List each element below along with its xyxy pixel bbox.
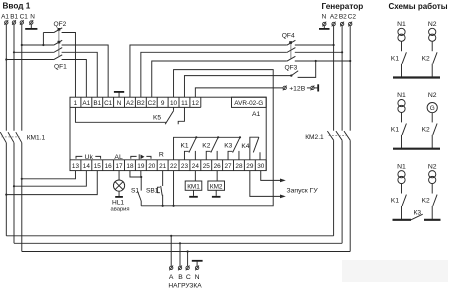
source N2 (scheme 1) — [429, 28, 436, 41]
svg-text:1: 1 — [74, 100, 78, 107]
svg-text:K1: K1 — [391, 55, 399, 62]
label R (terminal 21) — [159, 152, 164, 159]
bus phase A (bottom) — [6, 235, 333, 237]
svg-text:N2: N2 — [428, 92, 437, 99]
svg-text:N: N — [30, 14, 35, 21]
node QF4 pole3 to generator C2 — [349, 60, 351, 62]
node QF4 pole2 to generator B2 — [341, 51, 343, 53]
breaker QF3 (generator sense to terminal 11) — [184, 60, 316, 97]
svg-text:10: 10 — [170, 100, 178, 107]
reference designator A1 — [252, 111, 261, 118]
wire QF2 tap from phase C line — [42, 33, 44, 47]
svg-text:17: 17 — [115, 163, 123, 170]
svg-text:12: 12 — [192, 100, 200, 107]
svg-text:K5: K5 — [153, 115, 161, 122]
svg-text:QF3: QF3 — [285, 65, 298, 72]
svg-text:Запуск ГУ: Запуск ГУ — [287, 187, 319, 194]
load neutral PEN bar — [192, 261, 203, 271]
terminal N (generator) — [322, 22, 326, 27]
wire generator phase C2 vertical — [349, 26, 351, 131]
svg-text:30: 30 — [257, 163, 265, 170]
svg-text:K2: K2 — [422, 127, 430, 134]
node QF1 tap phase C — [21, 44, 23, 46]
controller unit A1 AVR-02-G outline — [70, 97, 266, 170]
svg-text:В1: В1 — [10, 14, 18, 21]
load tap A — [169, 235, 173, 271]
relay contact K5 (terminal 1 to 10) — [75, 107, 173, 124]
source N2 (scheme 2) — [427, 103, 437, 113]
relay contact K3 (terminals 27-28) — [224, 136, 241, 160]
svg-text:22: 22 — [170, 163, 178, 170]
contact K2 (scheme 2) — [422, 113, 437, 149]
svg-text:27: 27 — [224, 163, 232, 170]
svg-text:QF1: QF1 — [54, 64, 67, 71]
contact K1 (scheme 1) — [391, 41, 406, 77]
wire generator phase A2 vertical — [333, 26, 335, 131]
node QF1 tap phase A — [5, 58, 7, 60]
relay contact K4 (terminals 29-30) — [241, 137, 260, 160]
breaker QF1 (3-pole) — [6, 28, 108, 97]
terminal strip bottom row (13..30) — [70, 160, 266, 171]
node QF1 tap phase B — [13, 51, 15, 53]
source N1 (scheme 3) — [398, 171, 405, 184]
bus bar (scheme 1) — [393, 76, 440, 78]
svg-text:K1: K1 — [181, 142, 189, 149]
load labels A B C N — [169, 274, 200, 281]
contact K3 in bus (scheme 3) — [393, 210, 441, 220]
svg-text:С2: С2 — [148, 100, 157, 107]
contact K1 (scheme 2) — [391, 113, 406, 149]
wire Uk sense terminal 13 to phase C — [21, 171, 76, 180]
wire generator B2 lower vertical — [341, 140, 343, 243]
terminal B2 (generator) — [340, 22, 344, 27]
svg-text:HL1: HL1 — [112, 200, 124, 207]
terminal strip top row (1..12) — [70, 97, 201, 107]
label box AVR-02-G — [232, 97, 267, 107]
relay contact K2 (terminals 25-26) — [202, 136, 219, 160]
svg-text:24: 24 — [192, 163, 200, 170]
svg-text:G: G — [430, 105, 435, 112]
ground PEN bar (generator N) — [319, 26, 330, 29]
wire start output terminal 30 with arrow — [261, 171, 286, 183]
contact K1 (scheme 3) — [391, 184, 406, 220]
terminal C2 (generator) — [348, 22, 352, 27]
svg-text:21: 21 — [159, 163, 167, 170]
fixed contact hook below terminal 11 — [178, 107, 184, 124]
load tap C — [186, 250, 190, 270]
svg-text:N2: N2 — [428, 21, 437, 28]
svg-text:С1: С1 — [104, 100, 113, 107]
svg-text:НАГРУЗКА: НАГРУЗКА — [168, 283, 202, 289]
wire generator C2 lower vertical — [349, 140, 351, 251]
svg-text:SB1: SB1 — [146, 188, 159, 195]
svg-text:25: 25 — [203, 163, 211, 170]
ground PEN bar (input 1 N) — [25, 24, 37, 29]
svg-text:Uk: Uk — [85, 154, 94, 161]
svg-text:авария: авария — [111, 207, 130, 213]
svg-text:9: 9 — [161, 100, 165, 107]
svg-text:K4: K4 — [241, 143, 249, 150]
node QF4 pole1 to generator A2 — [333, 44, 335, 46]
svg-text:N2: N2 — [428, 163, 437, 170]
terminal B1 (input 1) — [12, 20, 16, 25]
contactor coil KM2 (terminal 26) — [208, 171, 225, 197]
node labels A1 B1 C1 N (input 1) — [1, 14, 35, 21]
wire phase B lower vertical — [13, 143, 15, 244]
breaker QF4 (3-pole, generator) — [130, 32, 350, 97]
title Генератор — [322, 2, 364, 11]
source N2 (scheme 3) — [429, 171, 436, 184]
svg-text:N: N — [195, 274, 200, 281]
svg-text:В2: В2 — [137, 100, 145, 107]
svg-text:А2: А2 — [330, 13, 338, 20]
wire +12V battery feed (terminal 12) — [195, 84, 318, 97]
relay contact K1 (terminals 23-24) — [181, 136, 198, 160]
wire phase C lower vertical — [21, 143, 23, 252]
svg-text:КМ2.1: КМ2.1 — [305, 134, 324, 141]
svg-text:КМ1: КМ1 — [187, 183, 200, 190]
wire common return (terminal 10 loop around block) — [141, 70, 273, 206]
svg-text:K1: K1 — [391, 198, 399, 205]
svg-text:QF2: QF2 — [54, 21, 67, 28]
svg-text:КМ2: КМ2 — [210, 183, 223, 190]
svg-text:K1: K1 — [391, 127, 399, 134]
svg-text:N1: N1 — [397, 92, 406, 99]
svg-text:29: 29 — [246, 163, 254, 170]
svg-text:R: R — [159, 152, 164, 159]
lamp HL1 авария (terminal 17) — [111, 171, 130, 213]
terminal A1 (input 1) — [4, 20, 8, 25]
wire common bar for relay contacts K1-K3 (from terminal 22) — [174, 137, 240, 160]
svg-text:N: N — [322, 13, 327, 20]
svg-text:С1: С1 — [20, 14, 29, 21]
wire phase A lower vertical — [5, 143, 7, 236]
terminal C1 (input 1) — [20, 20, 24, 25]
load tap B — [178, 242, 182, 270]
scheme 2: labels N1 N2 — [397, 92, 437, 99]
svg-text:28: 28 — [235, 163, 243, 170]
wire start output terminal 29 with arrow — [250, 171, 286, 199]
svg-text:А: А — [169, 274, 174, 281]
scheme 3: labels N1 N2 — [397, 163, 437, 170]
wire terminal 22 drop — [172, 171, 174, 207]
svg-text:15: 15 — [94, 163, 102, 170]
svg-text:QF4: QF4 — [282, 32, 295, 39]
contact K2 (scheme 3) — [422, 184, 437, 220]
svg-text:K2: K2 — [202, 142, 210, 149]
svg-text:20: 20 — [148, 163, 156, 170]
svg-text:A1: A1 — [252, 111, 261, 118]
svg-text:КМ1.1: КМ1.1 — [27, 134, 46, 141]
label bracket with comparator symbol (terminals 18-20) — [131, 154, 151, 159]
svg-text:AVR-02-G: AVR-02-G — [234, 100, 263, 107]
svg-text:А2: А2 — [126, 100, 134, 107]
ground PEN bar above terminal N of A1 unit — [114, 92, 124, 97]
title Ввод 1 — [3, 1, 31, 10]
svg-text:11: 11 — [181, 100, 188, 107]
svg-text:А1: А1 — [82, 100, 90, 107]
svg-text:N1: N1 — [397, 163, 406, 170]
wire phase B vertical (input 1) — [13, 24, 15, 130]
node labels N A2 B2 C2 (generator) — [322, 13, 357, 20]
wire generator A2 lower vertical — [333, 140, 335, 236]
svg-text:K3: K3 — [224, 142, 232, 149]
svg-text:В2: В2 — [339, 13, 347, 20]
svg-text:В1: В1 — [93, 100, 101, 107]
push button SB1 (terminal 21) — [146, 171, 164, 207]
label Запуск ГУ — [287, 187, 319, 194]
svg-text:19: 19 — [137, 163, 145, 170]
contactor KM2.1 (3-pole, generator) — [305, 131, 350, 141]
label НАГРУЗКА — [168, 283, 202, 289]
label AL (alarm output) — [114, 154, 123, 161]
svg-text:В: В — [178, 274, 183, 281]
svg-text:13: 13 — [72, 163, 80, 170]
source N1 (scheme 1) — [398, 28, 405, 41]
terminal N (input 1) — [29, 20, 33, 25]
terminal A2 (generator) — [332, 22, 336, 27]
svg-text:Ввод 1: Ввод 1 — [3, 1, 31, 10]
label bracket Uk (terminals 14-15) — [76, 154, 101, 161]
scheme 1: label N1 — [397, 21, 437, 28]
svg-text:+12В: +12В — [289, 85, 306, 92]
svg-text:K2: K2 — [422, 55, 430, 62]
svg-text:18: 18 — [126, 163, 134, 170]
svg-text:16: 16 — [105, 163, 113, 170]
svg-text:Генератор: Генератор — [322, 2, 364, 11]
contactor coil KM1 (terminal 24) — [185, 171, 202, 197]
wire phase C vertical (input 1) — [21, 24, 23, 130]
wire phase A vertical (input 1) — [5, 24, 7, 130]
svg-text:С: С — [186, 274, 191, 281]
wire Uk sense terminal 14 to phase B — [13, 171, 86, 188]
svg-text:AL: AL — [114, 154, 123, 161]
svg-text:N: N — [117, 100, 122, 107]
contactor KM1.1 (3-pole) — [0, 132, 45, 143]
source N1 (scheme 2) — [398, 100, 405, 113]
contact K2 (scheme 1) — [422, 41, 437, 77]
svg-text:26: 26 — [214, 163, 222, 170]
svg-text:Схемы работы: Схемы работы — [389, 2, 448, 11]
bus bar (scheme 2) — [393, 148, 440, 150]
svg-text:N1: N1 — [397, 21, 406, 28]
switch S1 (terminals 18/19) — [130, 171, 142, 206]
svg-text:А1: А1 — [1, 14, 9, 21]
svg-text:K2: K2 — [422, 198, 430, 205]
wire Uk sense terminal 15 to phase A — [5, 171, 97, 196]
title Схемы работы — [389, 2, 448, 11]
svg-text:С2: С2 — [348, 13, 357, 20]
breaker QF2 (single pole to terminal 1) — [43, 21, 75, 97]
svg-text:23: 23 — [181, 163, 189, 170]
svg-text:14: 14 — [83, 163, 91, 170]
wire generator phase B2 vertical — [341, 26, 343, 131]
bus phase B (bottom) — [14, 242, 342, 244]
bus phase C (bottom) — [22, 251, 350, 253]
